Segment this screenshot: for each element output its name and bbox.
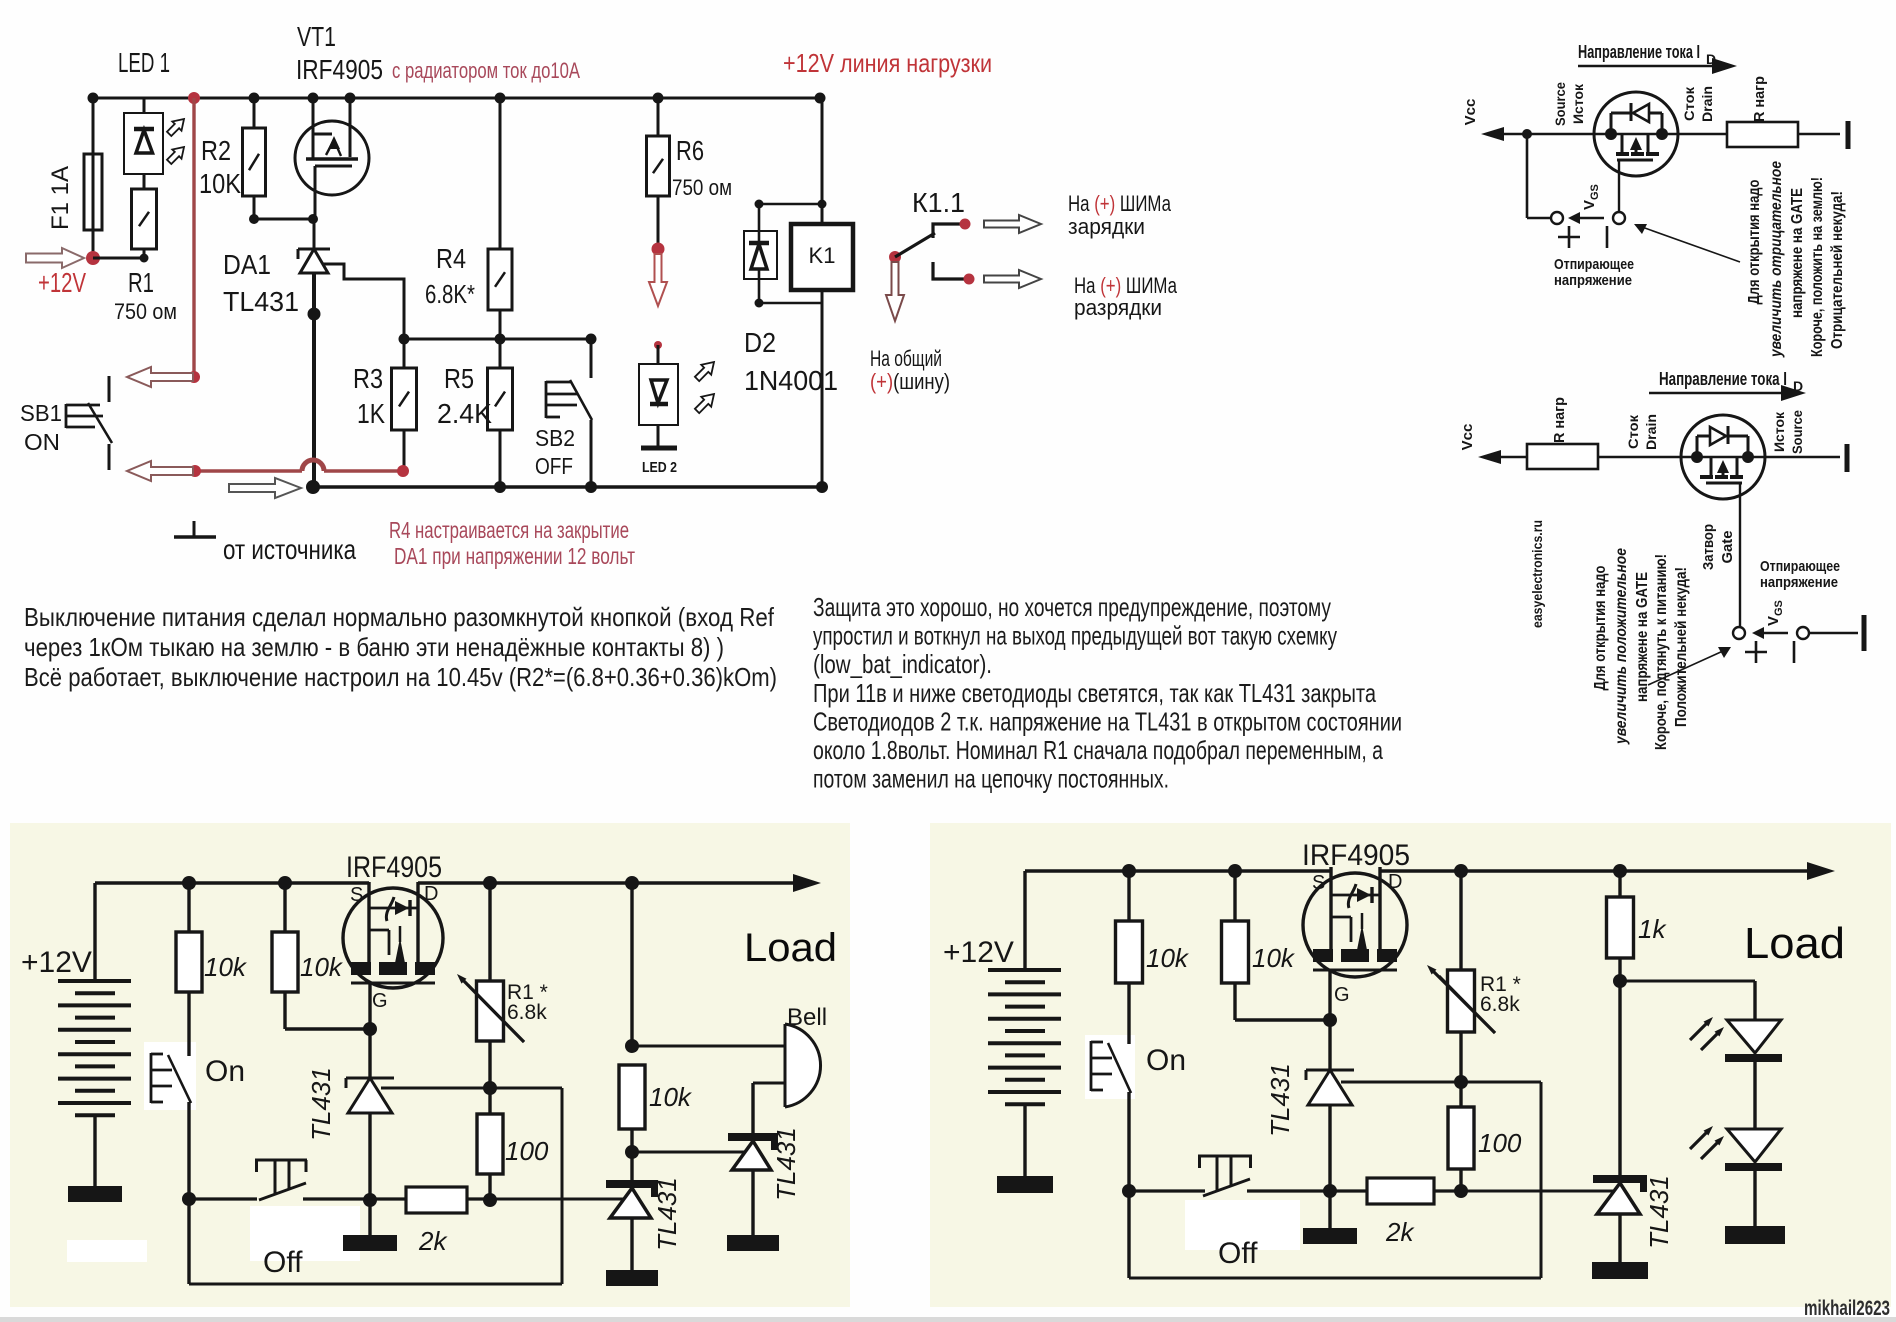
svg-text:Source: Source (1552, 82, 1568, 126)
svg-text:Исток: Исток (1771, 411, 1787, 452)
svg-text:(low_bat_indicator).: (low_bat_indicator). (813, 649, 992, 679)
svg-text:TL431: TL431 (1265, 1063, 1295, 1137)
svg-text:Vcc: Vcc (1459, 424, 1476, 451)
svg-text:Короче, положить на землю!: Короче, положить на землю! (1809, 177, 1826, 357)
svg-text:Защита это хорошо, но хочется: Защита это хорошо, но хочется предупрежд… (813, 592, 1331, 622)
svg-text:750 ом: 750 ом (114, 299, 177, 324)
svg-text:TL431: TL431 (223, 286, 299, 317)
svg-text:увеличить отрицательное: увеличить отрицательное (1768, 161, 1785, 358)
svg-text:easyelectronics.ru: easyelectronics.ru (1529, 520, 1545, 628)
svg-text:Для открытия надо: Для открытия надо (1592, 565, 1609, 690)
svg-text:+12V линия нагрузки: +12V линия нагрузки (783, 48, 992, 78)
svg-text:Исток: Исток (1570, 83, 1586, 124)
svg-text:10k: 10k (649, 1082, 693, 1112)
svg-text:LED 2: LED 2 (642, 459, 677, 476)
svg-text:G: G (1334, 984, 1350, 1006)
svg-text:Отрицательней некуда!: Отрицательней некуда! (1829, 191, 1846, 349)
svg-text:(+)(шину): (+)(шину) (870, 369, 950, 394)
svg-text:Сток: Сток (1681, 86, 1697, 121)
svg-text:R2: R2 (201, 135, 231, 166)
svg-text:1K: 1K (357, 398, 385, 429)
svg-text:DA1 при напряжении 12 вольт: DA1 при напряжении 12 вольт (394, 543, 635, 569)
svg-text:OFF: OFF (535, 453, 573, 479)
svg-text:Направление тока I: Направление тока I (1659, 369, 1787, 389)
svg-text:напряжение: напряжение (1760, 574, 1838, 591)
svg-text:2k: 2k (418, 1226, 448, 1256)
svg-text:зарядки: зарядки (1068, 214, 1145, 239)
svg-text:S: S (350, 884, 363, 906)
svg-text:10k: 10k (1252, 943, 1296, 973)
svg-text:On: On (205, 1055, 245, 1088)
svg-text:Отпирающее: Отпирающее (1554, 256, 1634, 273)
svg-text:1k: 1k (1638, 914, 1667, 944)
svg-text:R4 настраивается на закрытие: R4 настраивается на закрытие (389, 517, 629, 543)
svg-text:TL431: TL431 (652, 1177, 682, 1251)
svg-text:D2: D2 (744, 327, 776, 358)
svg-text:DA1: DA1 (223, 249, 271, 280)
svg-text:On: On (1146, 1044, 1186, 1077)
svg-text:SB1: SB1 (20, 400, 62, 426)
svg-text:750 ом: 750 ом (672, 175, 732, 200)
svg-text:Сток: Сток (1625, 414, 1641, 449)
svg-text:Всё работает, выключение настр: Всё работает, выключение настроил на 10.… (24, 662, 777, 692)
svg-text:1N4001: 1N4001 (744, 365, 838, 396)
svg-text:10K: 10K (199, 168, 241, 199)
svg-text:D: D (424, 883, 438, 905)
svg-text:VT1: VT1 (297, 21, 336, 52)
svg-text:Load: Load (1744, 919, 1845, 968)
svg-text:Светодиодов 2 т.к. напряжение: Светодиодов 2 т.к. напряжение на TL431 в… (813, 706, 1402, 736)
svg-text:К1.1: К1.1 (912, 187, 965, 218)
svg-text:Выключение питания сделал норм: Выключение питания сделал нормально разо… (24, 602, 775, 632)
svg-text:Off: Off (263, 1246, 303, 1279)
svg-text:S: S (1312, 872, 1325, 894)
svg-text:V: V (1765, 616, 1782, 626)
svg-text:V: V (1581, 200, 1598, 210)
svg-text:+12V: +12V (21, 946, 92, 979)
svg-text:TL431: TL431 (306, 1067, 336, 1141)
svg-text:+12V: +12V (943, 936, 1014, 969)
svg-text:100: 100 (1478, 1128, 1522, 1158)
svg-text:K1: K1 (809, 243, 836, 268)
svg-text:от источника: от источника (223, 534, 356, 565)
svg-text:10k: 10k (204, 952, 248, 982)
svg-text:F1 1A: F1 1A (47, 166, 74, 230)
svg-text:напряжене на GATE: напряжене на GATE (1789, 188, 1806, 318)
svg-text:6.8k: 6.8k (507, 1001, 547, 1024)
svg-text:Load: Load (744, 926, 837, 970)
svg-text:6.8k: 6.8k (1480, 993, 1520, 1016)
svg-text:напряжение: напряжение (1554, 272, 1632, 289)
svg-text:R6: R6 (676, 135, 704, 166)
svg-text:2.4K: 2.4K (437, 398, 492, 429)
svg-text:упростил и воткнул на выход пр: упростил и воткнул на выход предыдущей в… (813, 621, 1337, 651)
svg-text:разрядки: разрядки (1074, 295, 1162, 320)
svg-text:SB2: SB2 (535, 425, 575, 451)
svg-text:Drain: Drain (1699, 86, 1715, 122)
svg-text:G: G (372, 990, 388, 1012)
svg-text:R5: R5 (444, 363, 474, 394)
svg-text:Короче, подтянуть к питанию!: Короче, подтянуть к питанию! (1653, 554, 1670, 750)
svg-text:Для открытия надо: Для открытия надо (1746, 179, 1763, 304)
svg-text:Off: Off (1218, 1237, 1258, 1270)
svg-text:R3: R3 (353, 363, 383, 394)
svg-text:TL431: TL431 (771, 1127, 801, 1201)
svg-text:Затвор: Затвор (1700, 524, 1717, 570)
svg-text:Drain: Drain (1643, 414, 1659, 450)
svg-text:R4: R4 (436, 243, 466, 274)
svg-text:На (+) ШИМа: На (+) ШИМа (1068, 191, 1172, 216)
svg-text:потом заменил на цепочку посто: потом заменил на цепочку постоянных. (813, 764, 1169, 794)
svg-text:IRF4905: IRF4905 (296, 54, 383, 85)
svg-text:R нагр: R нагр (1751, 76, 1768, 122)
svg-text:GS: GS (1589, 184, 1601, 200)
svg-text:LED 1: LED 1 (118, 47, 170, 78)
svg-text:100: 100 (505, 1136, 549, 1166)
svg-text:Source: Source (1789, 410, 1805, 454)
svg-text:увеличить положительное: увеличить положительное (1613, 548, 1630, 745)
svg-text:При 11в и ниже светодиоды свет: При 11в и ниже светодиоды светятся, так … (813, 678, 1376, 708)
svg-text:IRF4905: IRF4905 (1302, 839, 1410, 872)
svg-text:Vcc: Vcc (1462, 99, 1479, 126)
svg-text:Положительней некуда!: Положительней некуда! (1673, 567, 1690, 727)
svg-text:Отпирающее: Отпирающее (1760, 558, 1840, 575)
svg-text:10k: 10k (1146, 943, 1190, 973)
svg-text:через 1кОм тыкаю на землю - в: через 1кОм тыкаю на землю - в баню эти н… (24, 632, 724, 662)
svg-text:2k: 2k (1385, 1217, 1415, 1247)
svg-text:Направление тока I: Направление тока I (1578, 42, 1700, 62)
svg-text:IRF4905: IRF4905 (346, 851, 442, 884)
svg-text:10k: 10k (300, 952, 344, 982)
svg-text:R1: R1 (128, 267, 154, 298)
svg-text:6.8K*: 6.8K* (425, 279, 475, 309)
svg-text:TL431: TL431 (1644, 1175, 1674, 1249)
svg-text:На общий: На общий (870, 346, 942, 371)
svg-text:с радиатором ток до10А: с радиатором ток до10А (392, 58, 580, 83)
svg-text:Bell: Bell (787, 1004, 827, 1031)
svg-text:D: D (1388, 871, 1402, 893)
svg-text:R нагр: R нагр (1551, 397, 1568, 443)
svg-text:около 1.8вольт. Номинал R1 сна: около 1.8вольт. Номинал R1 сначала подоб… (813, 735, 1383, 765)
svg-text:GS: GS (1773, 600, 1785, 616)
svg-text:+12V: +12V (38, 267, 86, 298)
svg-text:mikhail2623: mikhail2623 (1804, 1297, 1890, 1320)
svg-text:напряжене на GATE: напряжене на GATE (1634, 572, 1651, 702)
svg-text:ON: ON (24, 429, 60, 455)
svg-text:Gate: Gate (1719, 531, 1736, 564)
